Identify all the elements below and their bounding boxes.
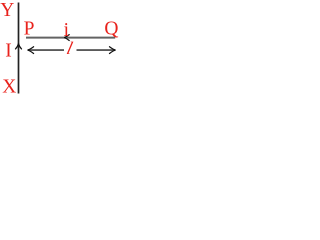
svg-text:i: i: [64, 20, 70, 41]
svg-text:Q: Q: [104, 18, 118, 39]
rod PQ: [26, 37, 115, 39]
svg-text:Y: Y: [0, 0, 14, 21]
svg-text:P: P: [24, 19, 35, 40]
svg-text:I: I: [5, 40, 12, 61]
svg-text:l: l: [65, 38, 75, 58]
dimension line l right segment: [77, 49, 116, 51]
current i arrowhead: [64, 35, 69, 41]
dimension line l left segment: [28, 49, 64, 51]
wire XY: [18, 3, 20, 94]
svg-text:X: X: [2, 77, 16, 98]
dimension right arrowhead: [110, 47, 116, 54]
current I arrowhead: [16, 44, 22, 49]
dimension left arrowhead: [28, 47, 34, 54]
